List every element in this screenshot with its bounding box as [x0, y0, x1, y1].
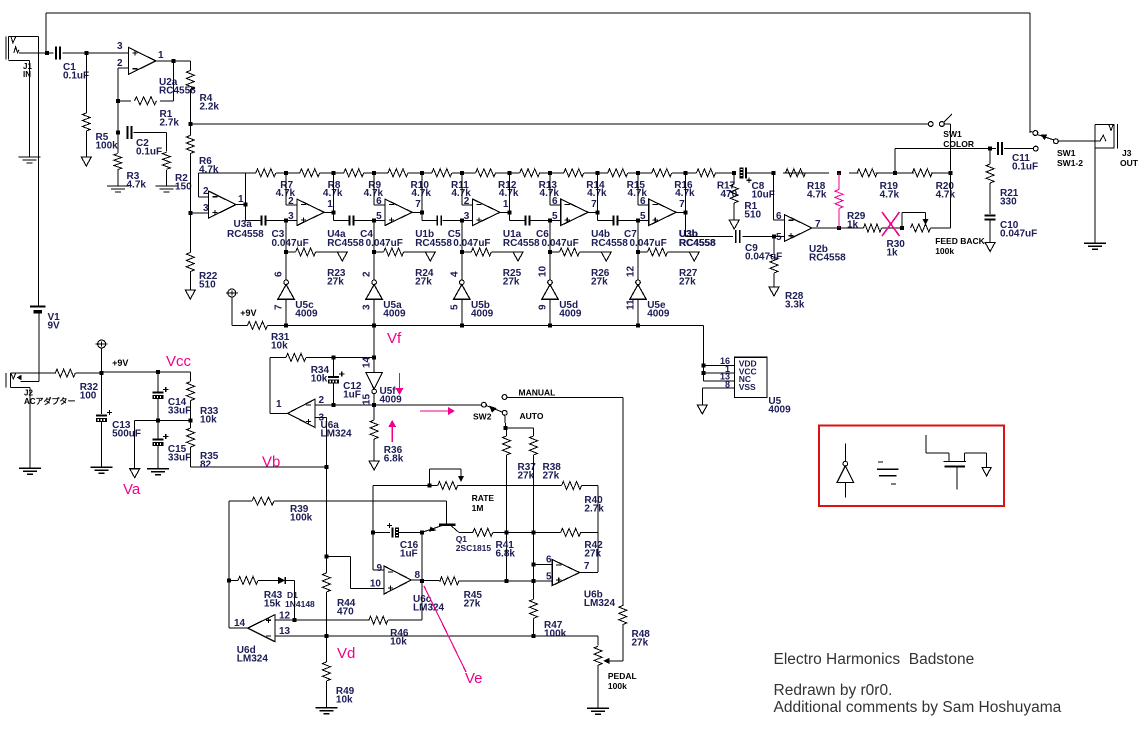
label R21 330 — [1000, 188, 1019, 207]
node R42 left — [532, 530, 536, 534]
node C15 top — [156, 419, 160, 423]
svg-text:6.8k: 6.8k — [384, 453, 404, 464]
label U3b RC4558 — [679, 238, 716, 249]
pin 14 U5f — [362, 356, 373, 368]
wire R37 column — [506, 428, 508, 581]
svg-text:27k: 27k — [464, 598, 481, 609]
ground J2 — [19, 468, 41, 474]
svg-text:2SC1815: 2SC1815 — [456, 543, 492, 553]
label U3a RC4558 C3 — [227, 229, 285, 240]
label U5e 4009 — [647, 300, 670, 319]
resistor R17h — [697, 169, 716, 177]
label R42 27k — [584, 540, 603, 559]
label R2 150 — [175, 173, 192, 192]
wire U2b output — [812, 227, 864, 229]
pin 6 U3b — [640, 196, 646, 207]
node R43 left junction — [227, 578, 231, 582]
svg-text:4.7k: 4.7k — [411, 188, 431, 199]
label R23 27k — [327, 268, 346, 287]
legend equals symbol — [877, 462, 898, 484]
wire input node — [19, 52, 129, 54]
label U1b RC4558 — [415, 238, 452, 249]
resistor R48 — [619, 606, 627, 625]
wire rail R17 segment — [686, 172, 735, 174]
svg-text:11: 11 — [626, 299, 637, 310]
wire R49 column — [325, 636, 327, 708]
svg-text:1k: 1k — [847, 219, 859, 230]
label R29 1k — [847, 211, 866, 230]
ground R25 arrow — [513, 252, 523, 261]
capacitor C11 — [998, 142, 1002, 155]
pin 7 U3b — [679, 199, 685, 210]
node C1/R5 junction — [84, 51, 88, 55]
wire C16 wire — [373, 531, 422, 533]
svg-text:6: 6 — [640, 196, 646, 207]
label U1b name — [415, 229, 434, 240]
label NC — [739, 374, 751, 384]
svg-text:4.7k: 4.7k — [807, 189, 827, 200]
svg-text:3: 3 — [362, 304, 373, 310]
wire C15 column — [157, 421, 159, 469]
op-amp U6b — [552, 560, 579, 586]
ground R1b arrow — [729, 220, 739, 229]
svg-text:33uF: 33uF — [168, 452, 191, 463]
label AUTO — [520, 411, 544, 421]
svg-text:2.2k: 2.2k — [200, 101, 220, 112]
node rail R10 right — [420, 171, 424, 175]
resistor R25 — [471, 248, 491, 256]
capacitor C3 — [262, 216, 266, 226]
svg-text:2: 2 — [288, 196, 294, 207]
pin 5 U5b — [449, 304, 460, 310]
label R18 4.7k — [807, 181, 827, 200]
wire rail segment R13 — [509, 172, 550, 174]
node U6b pin6 junction — [532, 563, 536, 567]
svg-text:7: 7 — [415, 199, 421, 210]
pin 8 U6c — [415, 570, 421, 581]
transistor Q1 2SC1815 — [422, 523, 463, 533]
resistor R38 — [530, 436, 538, 455]
label C11 0.1uF — [1012, 153, 1038, 172]
wire U3a pin3 — [190, 212, 208, 214]
svg-text:4009: 4009 — [768, 404, 791, 415]
capacitor C9 — [736, 230, 740, 243]
wire rail segment R9 — [333, 172, 374, 174]
wire U4b pin- drop — [550, 173, 561, 205]
wire U6c output — [411, 579, 441, 582]
svg-text:100k: 100k — [96, 140, 119, 151]
pin 7 U1b — [415, 199, 421, 210]
annotation Vb — [262, 454, 280, 471]
label R30 1k — [887, 239, 906, 258]
label C15 33uF — [168, 444, 191, 463]
label R33 10k — [200, 406, 219, 425]
svg-text:PEDAL: PEDAL — [608, 671, 637, 681]
wire cap line stage 4 — [509, 213, 560, 221]
wire R1 feedback line — [118, 61, 174, 101]
label SW1 SW1-2 — [1057, 148, 1083, 168]
ground R36 arrow — [369, 461, 379, 470]
wire U6c pin9 — [373, 569, 384, 571]
capacitor C7 — [614, 216, 618, 226]
node rail R18 left — [771, 171, 775, 175]
svg-text:9: 9 — [538, 304, 549, 310]
wire inverter output stage 3 — [461, 299, 463, 325]
svg-text:RC4558: RC4558 — [327, 238, 364, 249]
svg-text:RC4558: RC4558 — [809, 252, 846, 263]
legend mosfet symbol — [926, 435, 991, 489]
label R36 6.8k — [384, 445, 404, 464]
svg-text:12: 12 — [626, 265, 637, 277]
node R26 tee — [548, 250, 552, 254]
capacitor C13 electrolytic — [96, 410, 112, 422]
pin 6 U5c — [274, 271, 285, 277]
capacitor C15 electrolytic — [152, 434, 168, 446]
label R6 4.7k — [199, 156, 219, 175]
annotation Va — [123, 481, 141, 498]
svg-text:COLOR: COLOR — [943, 139, 974, 149]
capacitor C6 — [526, 216, 530, 226]
wire inverter output stage 4 — [549, 299, 551, 325]
node U4b output — [596, 211, 600, 215]
label R7 4.7k — [276, 180, 296, 199]
ground C15 — [147, 469, 169, 475]
svg-text:1N4148: 1N4148 — [285, 599, 315, 609]
label R1 2.7k — [160, 109, 180, 128]
node rail R12 right — [507, 171, 511, 175]
wire U5 pin8 to ground — [702, 388, 734, 405]
wire PEDAL to ground — [597, 665, 599, 708]
resistor R24 — [384, 248, 404, 256]
node Vf rail stage 1 — [284, 323, 288, 327]
resistor R5 — [82, 113, 90, 131]
pin 2 U3a — [203, 186, 209, 197]
wire U3b output — [676, 173, 686, 213]
svg-text:4009: 4009 — [559, 308, 582, 319]
resistor R31 — [248, 321, 268, 329]
label VDD — [739, 359, 757, 369]
wire R39 line — [229, 501, 446, 522]
wire output line — [895, 149, 1033, 173]
svg-text:5: 5 — [776, 232, 782, 243]
resistor R36 — [370, 420, 378, 439]
resistor R1 — [135, 97, 157, 105]
label R44 470 — [337, 598, 356, 617]
wire U2a inverting input — [118, 68, 129, 101]
pin 3 U2a — [117, 41, 123, 52]
wire U3b output to C9 — [686, 213, 785, 237]
wire R40 right column — [597, 486, 599, 573]
node rail R15 right — [636, 171, 640, 175]
node R41/R37 junction — [505, 530, 509, 534]
svg-text:10k: 10k — [200, 414, 217, 425]
label R12 4.7k — [498, 180, 519, 199]
label R27 27k — [679, 268, 698, 287]
resistor R1b 510 vertical — [730, 184, 738, 203]
svg-text:4.7k: 4.7k — [880, 189, 900, 200]
ground J3 — [1084, 243, 1106, 249]
label R41 6.8k — [496, 540, 516, 559]
svg-text:14: 14 — [234, 618, 246, 629]
svg-text:3: 3 — [117, 41, 123, 52]
wire U4a pin- drop — [286, 173, 297, 205]
label R45 27k — [464, 590, 483, 609]
label U6a LM324 — [321, 420, 353, 439]
op-amp U6c — [384, 566, 411, 594]
node Vf rail stage 3 — [460, 323, 464, 327]
diode D1 1N4148 — [278, 577, 285, 584]
wire R1b leads — [733, 173, 735, 220]
op-amp U1b — [385, 199, 412, 225]
connector J3 output jack — [1095, 124, 1118, 149]
wire pin2 to C2 — [117, 101, 119, 133]
wire U1b pin- drop — [374, 173, 385, 205]
svg-text:4: 4 — [449, 271, 460, 277]
label C12 1uF — [343, 381, 362, 400]
node U4a pin+ input — [284, 219, 288, 223]
svg-text:4.7k: 4.7k — [675, 188, 695, 199]
resistor R47 — [530, 599, 538, 618]
pin 2 U4a — [288, 196, 294, 207]
wire R25 line — [462, 221, 518, 252]
svg-text:510: 510 — [744, 209, 761, 220]
svg-text:VSS: VSS — [739, 382, 756, 392]
pin 1 U2a — [158, 50, 164, 61]
capacitor C16 electrolytic — [387, 523, 399, 538]
svg-text:Va: Va — [123, 481, 141, 498]
svg-text:4.7k: 4.7k — [323, 188, 343, 199]
svg-text:7: 7 — [591, 199, 597, 210]
svg-text:FEED BACK: FEED BACK — [935, 236, 985, 246]
svg-text:15k: 15k — [264, 598, 281, 609]
resistor R39 — [252, 497, 274, 505]
label Q1 2SC1815 — [456, 534, 492, 553]
svg-text:0.1uF: 0.1uF — [1012, 161, 1038, 172]
label U4b RC4558 — [591, 238, 628, 249]
ground R23 arrow — [337, 252, 347, 261]
svg-text:6: 6 — [552, 196, 558, 207]
svg-text:4009: 4009 — [383, 308, 406, 319]
resistor R40 — [562, 482, 582, 490]
pin 1 U1a — [503, 199, 509, 210]
node U5 pin16 junction — [702, 363, 706, 367]
label R17 470 — [717, 181, 738, 201]
svg-text:10k: 10k — [271, 340, 288, 351]
annotation Ve — [465, 670, 483, 687]
annotation Vf — [387, 330, 402, 347]
svg-text:10k: 10k — [311, 373, 328, 384]
label U5f 4009 — [380, 386, 403, 405]
connector J1 input jack — [6, 36, 39, 60]
wire U3a pin2 loop — [198, 173, 245, 197]
pin 1 U3a — [238, 194, 244, 205]
svg-text:4009: 4009 — [471, 308, 494, 319]
svg-text:500uF: 500uF — [112, 428, 141, 439]
label R4 2.2k — [200, 93, 220, 112]
svg-text:RATE: RATE — [472, 493, 495, 503]
pin 6 U2b — [776, 211, 782, 222]
label C8 10uF — [752, 181, 775, 200]
pin 4 U5b — [449, 271, 460, 277]
op-amp U6a — [288, 399, 315, 427]
resistor R13 — [520, 169, 540, 177]
pin 1 U6a — [276, 399, 282, 410]
ground R22 arrow — [185, 290, 195, 299]
svg-text:4.7k: 4.7k — [499, 188, 519, 199]
resistor R16 — [652, 169, 672, 177]
pin 5 U3b — [640, 211, 646, 222]
wire R35 column — [191, 421, 327, 467]
label C9 0.047uF — [745, 243, 782, 262]
label C1 0.1uF — [63, 62, 89, 81]
node U5f output junction — [372, 403, 376, 407]
wire R41 line — [463, 531, 534, 533]
wire R24 line — [374, 221, 430, 252]
svg-text:100k: 100k — [935, 246, 954, 256]
pin 3 U6a — [319, 413, 325, 424]
resistor R33 — [187, 382, 195, 401]
svg-text:7: 7 — [679, 199, 685, 210]
svg-text:RC4558: RC4558 — [503, 238, 540, 249]
label cap C5 — [448, 229, 461, 240]
legend red box — [819, 426, 1004, 507]
ground U5 arrow — [697, 405, 707, 414]
wire U6c pin10 path — [326, 557, 384, 589]
wire J3 to ground — [1094, 149, 1096, 244]
pin 3 U1a — [464, 211, 470, 222]
label cap C4 — [360, 229, 373, 240]
label U5 4009 — [768, 396, 791, 415]
label U3b name — [679, 229, 698, 240]
resistor R46 — [369, 616, 388, 624]
node R44 top — [324, 555, 328, 559]
resistor R4 — [186, 71, 194, 90]
wire R22 to ground — [189, 272, 191, 291]
wire U1b output — [412, 173, 422, 213]
label R10 4.7k — [411, 180, 432, 199]
node U5 pin1 junction — [702, 371, 706, 375]
resistor R20 — [912, 169, 932, 177]
label R38 27k — [543, 462, 562, 481]
wire R21 column — [989, 149, 991, 214]
resistor R27 — [648, 248, 668, 256]
credit text 1 — [774, 682, 893, 699]
node U2b output R29 — [837, 226, 841, 230]
svg-text:RC4558: RC4558 — [679, 238, 716, 249]
op-amp U1a — [473, 199, 500, 225]
label U1a name — [503, 229, 522, 240]
pin 2 U2a — [117, 58, 123, 69]
svg-text:1: 1 — [503, 199, 509, 210]
svg-text:Ve: Ve — [465, 670, 483, 687]
wire R34 line — [270, 356, 374, 358]
svg-text:330: 330 — [1000, 196, 1017, 207]
label R19 4.7k — [880, 181, 900, 200]
wire U4b output — [588, 173, 598, 213]
ground PEDAL — [587, 708, 609, 714]
resistor R41 — [473, 528, 493, 536]
pin 3 U4a — [288, 211, 294, 222]
node C14 top — [156, 370, 160, 374]
label U2a RC4558 — [159, 77, 196, 96]
node C9/R28 junction — [772, 235, 776, 239]
capacitor C8 electrolytic — [740, 167, 752, 183]
svg-text:470: 470 — [721, 189, 738, 200]
svg-text:0.1uF: 0.1uF — [136, 146, 162, 157]
resistor R23 — [296, 248, 316, 256]
node rail R13 right — [548, 171, 552, 175]
node rail R8 right — [331, 171, 335, 175]
svg-text:10k: 10k — [336, 694, 353, 705]
pin 2 U1a — [464, 196, 470, 207]
label U6d LM324 — [237, 645, 269, 664]
pin 5 U6b — [546, 572, 552, 583]
pin 3 U5a — [362, 304, 373, 310]
title text — [774, 651, 975, 668]
svg-text:8: 8 — [415, 570, 421, 581]
svg-text:100k: 100k — [290, 512, 313, 523]
label C10 0.047uF — [1000, 220, 1037, 239]
connector J2 AC adapter jack — [6, 373, 39, 388]
pin 3 U3a — [203, 203, 209, 214]
svg-text:SW1-2: SW1-2 — [1057, 158, 1083, 168]
wire rail to U5 box — [704, 325, 735, 381]
label FEED BACK 100k — [935, 236, 985, 256]
label U3a — [234, 219, 253, 230]
svg-text:10: 10 — [370, 579, 382, 590]
node Vf rail stage 4 — [548, 323, 552, 327]
power +9V symbol phaser — [226, 289, 238, 297]
ground R28 arrow — [769, 287, 779, 296]
wire +9V to rail — [231, 297, 233, 325]
svg-text:1: 1 — [327, 199, 333, 210]
label R28 3.3k — [785, 291, 805, 310]
node R24 tee — [372, 250, 376, 254]
wire U3a output — [236, 173, 246, 205]
svg-text:0.047uF: 0.047uF — [366, 238, 403, 249]
node R23 tee — [284, 250, 288, 254]
wire C16 line — [372, 486, 374, 571]
wire rail segment R7 — [246, 172, 287, 174]
pin 1 U4a — [327, 199, 333, 210]
wire rail segment R10 — [374, 172, 422, 174]
wire U5f output — [373, 394, 375, 405]
wire Vd to PEDAL — [597, 636, 599, 646]
label C4 value — [366, 238, 403, 249]
node rail R11 right — [460, 171, 464, 175]
pin 2 U5a — [362, 271, 373, 277]
label R49 10k — [336, 686, 355, 705]
battery V1 — [30, 307, 46, 314]
label +9V main — [112, 358, 128, 368]
node Vf rail stage 2 — [372, 323, 376, 327]
svg-text:2.7k: 2.7k — [584, 503, 604, 514]
wire rail segment R14 — [550, 172, 598, 174]
resistor R30 — [864, 224, 882, 232]
resistor R7 — [256, 169, 276, 177]
node R44 bottom — [324, 634, 328, 638]
node R1 feedback left — [116, 99, 120, 103]
switch SW1-2 — [1030, 131, 1058, 144]
wire U6b pin6 jog — [534, 564, 553, 566]
wire inverter input stage 1 — [285, 252, 287, 280]
resistor R19 — [857, 169, 877, 177]
wire inverter input stage 3 — [461, 252, 463, 280]
svg-text:100: 100 — [80, 390, 97, 401]
wire R38 column — [533, 428, 535, 599]
svg-text:4.7k: 4.7k — [127, 179, 147, 190]
op-amp U2b — [785, 215, 812, 242]
